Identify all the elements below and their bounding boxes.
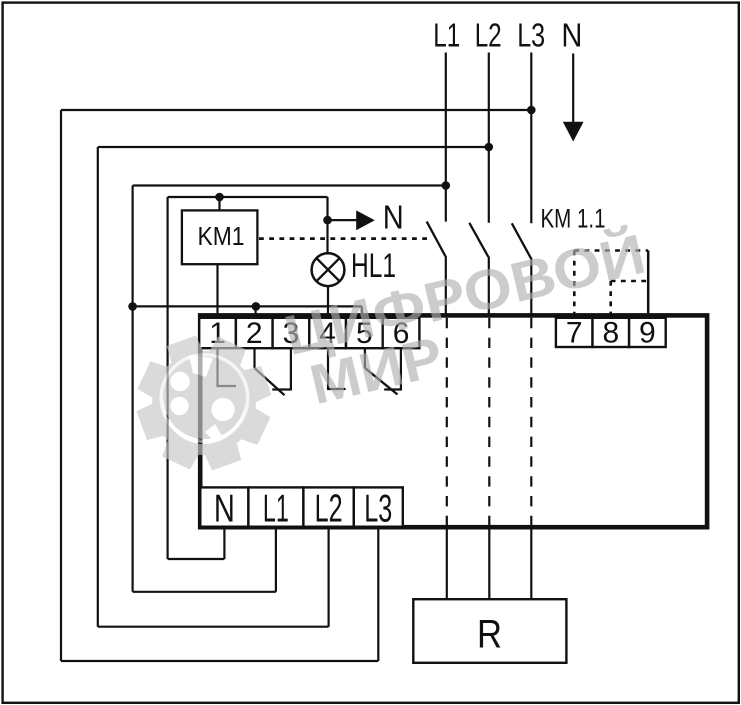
relay device body xyxy=(200,315,707,527)
wire KM1 coil to terminal 1 xyxy=(216,264,218,318)
wire L1 loop riser xyxy=(275,527,277,592)
wire L3 dashed through device xyxy=(530,318,532,526)
terminal L2 (supply) xyxy=(303,487,353,526)
contact KM1.1 pole L3 xyxy=(512,223,531,258)
wire N loop left xyxy=(167,197,169,559)
dotted link to terminal 8 xyxy=(609,281,612,316)
terminal 1 xyxy=(199,318,236,348)
N arrow at lamp branch xyxy=(328,219,357,221)
wire L1 loop bottom xyxy=(133,591,276,593)
lamp HL1 xyxy=(312,253,345,286)
watermark gear logo xyxy=(137,336,272,471)
svg-text:L3: L3 xyxy=(517,17,545,54)
wire L2 dashed through device xyxy=(488,318,490,526)
terminal 2 xyxy=(236,318,273,348)
wire L1 to load xyxy=(446,530,448,600)
contactor coil KM1 xyxy=(182,210,258,264)
load R xyxy=(413,599,566,663)
svg-text:N: N xyxy=(214,487,235,530)
internal contact fixed end terminal 3 xyxy=(290,348,292,389)
contact KM1.1 pole L2 xyxy=(469,223,488,257)
terminal 8 xyxy=(593,318,630,347)
wire lamp to terminal 4 xyxy=(327,286,329,318)
wire branch to terminal 5 xyxy=(361,306,363,318)
wire N loop bottom xyxy=(168,558,225,560)
wire L1 drop xyxy=(445,53,447,222)
terminal 9 xyxy=(629,318,666,347)
KM1 linkage dotted line xyxy=(259,237,429,240)
svg-text:2: 2 xyxy=(246,317,263,350)
junction N arrow tap xyxy=(323,216,332,225)
wire L3 loop top xyxy=(61,109,531,111)
svg-text:L1: L1 xyxy=(433,17,460,54)
terminal L3 (supply) xyxy=(354,487,403,526)
svg-text:N: N xyxy=(561,17,582,54)
terminal 4 xyxy=(309,318,346,348)
internal contact lever terminal 5 xyxy=(364,348,366,368)
svg-text:KM1: KM1 xyxy=(198,223,245,251)
wire branch to terminal 2 xyxy=(255,306,257,318)
svg-text:9: 9 xyxy=(639,316,656,349)
wire L2 loop riser xyxy=(328,527,330,627)
junction KM1/N loop xyxy=(215,193,224,202)
wire L3 to load xyxy=(530,530,532,600)
wire L2 drop xyxy=(488,53,490,223)
svg-text:L2: L2 xyxy=(315,487,343,530)
wire L2 loop bottom xyxy=(98,626,329,628)
wire link to terminal 9 xyxy=(647,251,650,316)
N supply arrow xyxy=(572,54,574,125)
internal contact fixed end terminal 4 xyxy=(327,348,329,389)
junction branch/L1 loop xyxy=(128,302,137,311)
terminal 3 xyxy=(273,318,310,348)
terminal N (supply) xyxy=(200,487,248,526)
dotted link inner xyxy=(611,280,647,283)
wire L3 loop left xyxy=(60,110,62,661)
internal contact fixed end terminal 6 xyxy=(400,348,402,389)
wire L1 loop left xyxy=(132,186,134,592)
junction L2 tap xyxy=(485,143,494,152)
wire L2 loop left xyxy=(97,147,99,627)
svg-text:L3: L3 xyxy=(364,487,392,530)
svg-text:R: R xyxy=(477,613,502,657)
wire L1 loop top xyxy=(133,184,446,186)
wire L1 dashed through device xyxy=(446,318,448,526)
terminal 7 xyxy=(556,318,593,347)
wire N loop riser xyxy=(223,527,225,559)
terminal L1 (supply) xyxy=(248,487,303,526)
svg-text:N: N xyxy=(383,199,404,236)
svg-text:7: 7 xyxy=(566,316,583,349)
wire N loop down to lamp xyxy=(326,197,328,254)
junction L3 tap xyxy=(527,106,536,115)
wire L3 loop riser xyxy=(377,527,379,661)
terminal 6 xyxy=(383,318,420,348)
junction L1 tap xyxy=(442,181,451,190)
wire KM1 coil to N loop xyxy=(218,197,220,210)
wire N loop top xyxy=(168,196,328,198)
internal contact lever terminal 2 xyxy=(253,348,255,368)
dotted link top xyxy=(574,249,648,252)
wire L3 drop xyxy=(530,53,532,224)
wire L1 branch to contacts xyxy=(133,305,362,307)
svg-text:8: 8 xyxy=(602,316,619,349)
svg-text:L1: L1 xyxy=(263,487,289,530)
junction branch/terminal 2 xyxy=(252,302,261,311)
dotted link to terminal 7 xyxy=(573,251,576,316)
wire L3 loop bottom xyxy=(61,660,378,662)
svg-text:KM 1.1: KM 1.1 xyxy=(541,204,606,234)
internal contact fixed end terminal 1 xyxy=(216,348,218,386)
wire L2 loop top xyxy=(98,146,489,148)
contact KM1.1 pole L1 xyxy=(427,222,446,257)
svg-text:L2: L2 xyxy=(475,17,502,54)
terminal 5 xyxy=(346,318,383,348)
wire L2 to load xyxy=(488,530,490,600)
